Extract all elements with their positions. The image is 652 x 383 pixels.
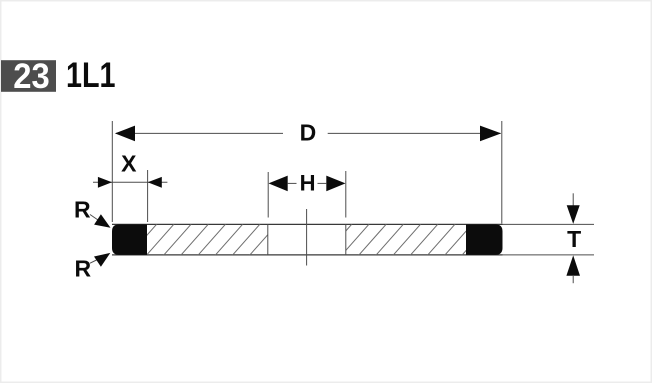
extension line H right (345, 171, 347, 218)
hole right boundary line (345, 224, 347, 255)
hatch section left (128, 223, 296, 257)
svg-text:D: D (300, 119, 317, 145)
T upper arrow tail (572, 193, 574, 206)
dimension line H stubs (288, 182, 327, 184)
right abrasive segment (black) (466, 224, 503, 255)
wheel body outline (112, 224, 503, 255)
svg-text:23: 23 (13, 56, 50, 96)
arrowhead D left (115, 126, 135, 142)
label H (300, 171, 316, 196)
arrowhead X left (points right) (98, 177, 112, 188)
arrowhead H left (points left) (269, 176, 288, 192)
title 1L1 (66, 55, 116, 95)
svg-text:H: H (300, 171, 316, 196)
extension line X right (147, 170, 149, 222)
arrowhead T top (points down) (567, 205, 580, 224)
R top arrowhead (points to upper-left corner radius) (94, 214, 110, 228)
svg-text:1L1: 1L1 (66, 55, 116, 95)
R bottom leader line (90, 260, 98, 264)
dimension line D (116, 132, 501, 134)
arrowhead D right (480, 126, 501, 142)
R bottom arrowhead (points to lower-left corner radius) (94, 253, 110, 267)
arrowhead H right (points right) (326, 176, 345, 192)
label D (300, 119, 317, 145)
label T (567, 226, 581, 252)
T lower arrow tail (572, 275, 574, 283)
extension line D left (111, 121, 113, 222)
arrowhead T bottom (points up) (566, 255, 580, 275)
left abrasive segment (black) (112, 224, 147, 255)
hole center line (306, 209, 308, 266)
dimension line X (93, 181, 167, 183)
svg-text:X: X (121, 150, 137, 176)
svg-text:R: R (75, 256, 92, 282)
label R top (74, 197, 91, 223)
label X (121, 150, 137, 176)
svg-text:R: R (74, 197, 91, 223)
hatch section right (323, 223, 491, 257)
label R bottom (75, 256, 92, 282)
extension line T top (503, 223, 595, 225)
R top leader line (90, 215, 98, 221)
extension line H left (267, 172, 269, 218)
svg-text:T: T (567, 226, 581, 252)
extension line D right (501, 121, 503, 224)
index box 23 (1, 56, 56, 96)
hole left boundary line (267, 224, 269, 255)
arrowhead X right (points left) (148, 177, 162, 188)
extension line T bottom (503, 254, 595, 256)
